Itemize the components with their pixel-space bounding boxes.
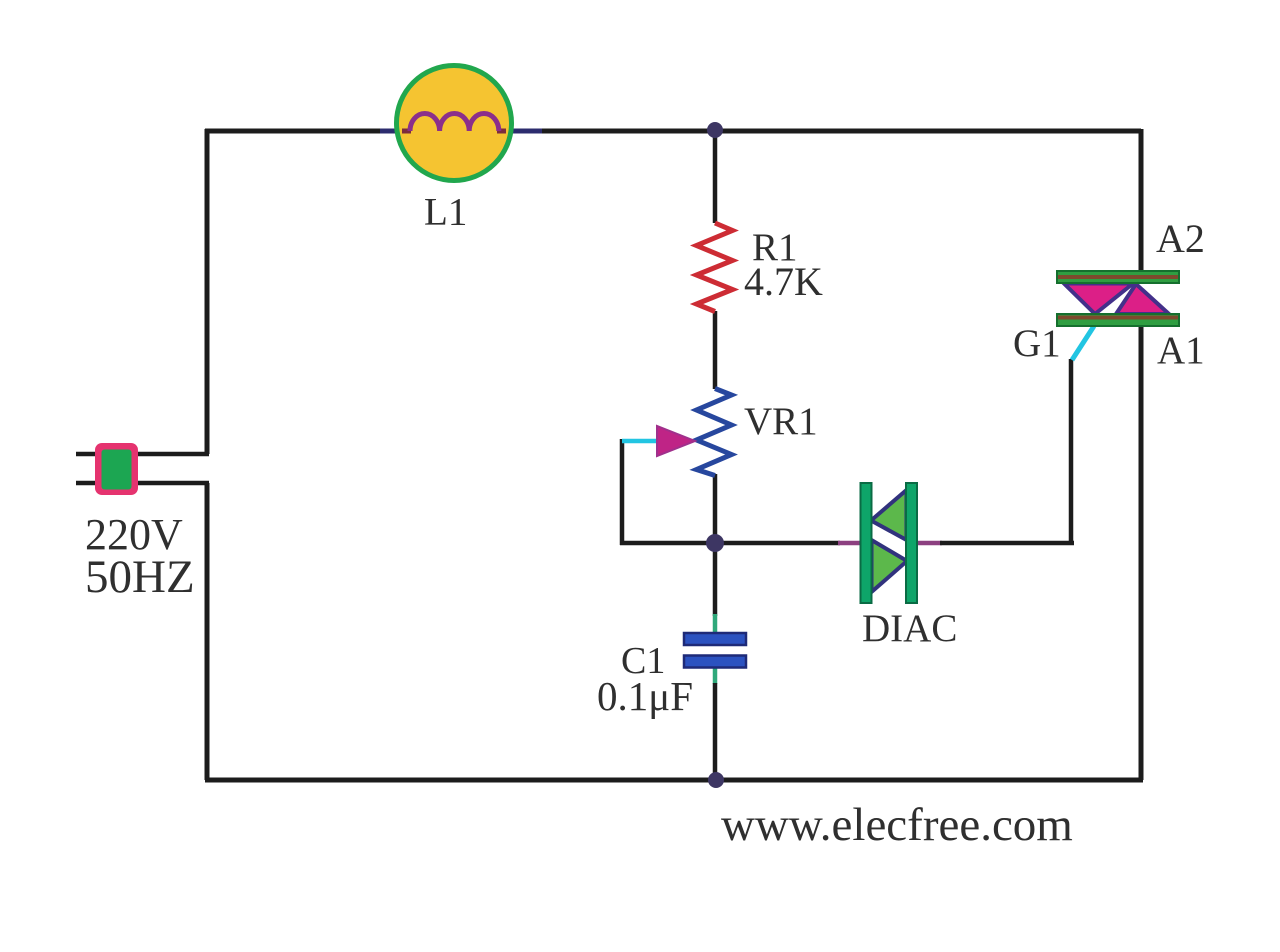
triac bar bottom (A1) [1057, 314, 1179, 326]
wire top-left horizontal (mains to lamp) [205, 129, 400, 134]
wire right rail lower (A1) [1139, 326, 1144, 780]
wire mid junction to DIAC [715, 541, 840, 546]
wire bottom horizontal [205, 778, 1143, 783]
wire wiper branch horizontal to junction [620, 541, 715, 546]
lamp L1 [397, 66, 512, 181]
svg-text:L1: L1 [424, 191, 467, 234]
potentiometer VR1 [697, 389, 732, 476]
resistor R1 [697, 223, 733, 312]
svg-text:4.7K: 4.7K [744, 259, 823, 304]
triac bar top maroon stripe [1058, 275, 1178, 279]
DIAC bar left [861, 483, 872, 603]
svg-text:VR1: VR1 [744, 400, 818, 443]
wire VR1 to mid junction [713, 474, 718, 545]
svg-text:50HZ: 50HZ [85, 551, 195, 603]
wire navy stub right of lamp [494, 129, 542, 134]
wire green stub above C1 [713, 614, 718, 633]
triac bar bottom maroon stripe [1058, 316, 1178, 320]
wire cyan gate diagonal [1072, 326, 1094, 360]
junction node top [707, 122, 723, 138]
wire purple stub right of DIAC [916, 541, 942, 546]
lamp coil [410, 114, 499, 132]
wire plug prong bottom [76, 481, 209, 486]
junction node bottom [708, 772, 724, 788]
wire left rail upper [205, 129, 210, 454]
wire gate vertical [1069, 359, 1074, 545]
svg-text:DIAC: DIAC [862, 607, 957, 650]
wire navy stub left of lamp [380, 129, 416, 134]
wire R1 to VR1 [713, 311, 718, 389]
triac Q1 triangle right (points up) [1116, 284, 1169, 314]
wire right rail upper (A2) [1139, 129, 1144, 272]
wire green stub below C1 [713, 668, 718, 684]
svg-text:G1: G1 [1013, 322, 1061, 365]
plug body inner [102, 450, 132, 490]
wire center column top (junction to R1) [713, 129, 718, 223]
capacitor C1 plate top [684, 633, 746, 645]
wire DIAC to gate column [940, 541, 1074, 546]
DIAC triangle lower (points right) [872, 540, 908, 592]
svg-text:www.elecfree.com: www.elecfree.com [721, 799, 1073, 851]
svg-text:A1: A1 [1157, 329, 1205, 372]
plug body outer [95, 443, 138, 495]
capacitor C1 plate bottom [684, 656, 746, 668]
wire top horizontal (lamp to right corner) [508, 129, 1141, 134]
wire plug prong top [76, 452, 209, 457]
triac bar top (A2) [1057, 271, 1179, 283]
DIAC bar right [906, 483, 917, 603]
wire mid junction down to C1 [713, 543, 718, 616]
lamp coil maroon stubs [402, 129, 506, 134]
DIAC triangle upper (points left) [871, 490, 907, 540]
svg-text:0.1μF: 0.1μF [597, 673, 693, 719]
junction node mid [706, 534, 724, 552]
wire C1 to bottom junction [713, 683, 718, 780]
wire cyan wiper lead [622, 439, 660, 444]
triac Q1 triangle left (points down) [1064, 284, 1133, 315]
wire left rail lower [205, 483, 210, 780]
wire purple stub left of DIAC [838, 541, 861, 546]
VR1 wiper arrow [657, 426, 695, 456]
wire wiper branch vertical [620, 439, 625, 545]
svg-text:A2: A2 [1156, 216, 1205, 261]
